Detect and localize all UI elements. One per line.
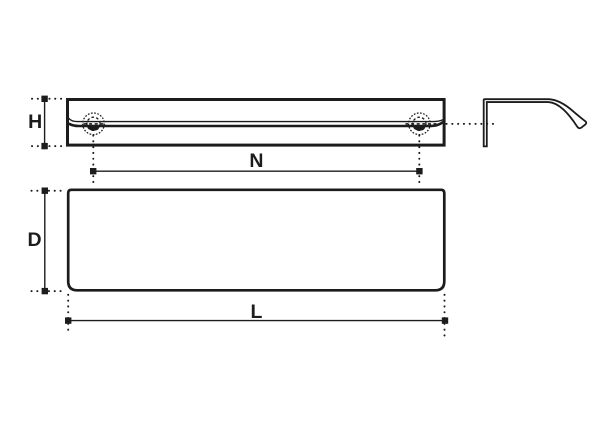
H dimension end square bottom [41, 143, 47, 149]
svg-text:H: H [28, 111, 42, 133]
screw hole right inner dashed circle [413, 117, 426, 130]
svg-text:D: D [28, 229, 42, 251]
groove lower edge line [69, 122, 444, 127]
profile cross-section outline [484, 99, 587, 146]
N dimension end square right [416, 168, 422, 174]
L dimension right extension dotted line [444, 295, 446, 336]
screw head right lower fill [413, 127, 425, 131]
handle top view outline [68, 190, 444, 290]
svg-text:L: L [250, 301, 262, 323]
screw centreline dotted left [92, 136, 94, 187]
screw hole left inner dashed circle [87, 117, 100, 130]
L dimension end square left [65, 317, 71, 323]
D dimension end square bottom [42, 288, 48, 294]
L dimension line [68, 320, 445, 322]
section centreline dotted [447, 123, 494, 125]
svg-text:N: N [249, 150, 263, 172]
D dimension upper extension dotted line [32, 190, 66, 192]
screw hole left hidden line [84, 123, 105, 125]
groove upper edge line [69, 118, 444, 121]
screw centreline dotted right [418, 136, 420, 187]
H dimension lower extension dotted line [32, 145, 66, 147]
N dimension line [93, 170, 419, 172]
screw hole left outer dashed circle [83, 113, 105, 135]
D dimension line [44, 191, 46, 291]
H dimension end square top [41, 96, 47, 102]
N dimension end square left [90, 168, 96, 174]
D dimension lower extension dotted line [32, 290, 66, 292]
L dimension end square right [442, 317, 448, 323]
H dimension line [44, 99, 46, 146]
screw hole right hidden line [406, 123, 442, 125]
handle front view outline [68, 100, 445, 146]
L dimension left extension dotted line [67, 295, 69, 334]
H dimension upper extension dotted line [32, 98, 66, 100]
screw head left lower fill [87, 127, 99, 131]
D dimension end square top [42, 188, 48, 194]
screw hole right outer dashed circle [409, 113, 431, 135]
